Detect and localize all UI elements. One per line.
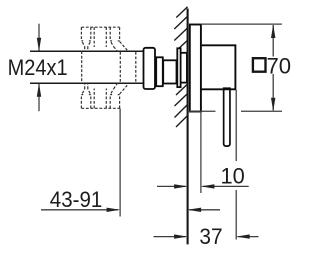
svg-text:43-91: 43-91 [50,187,103,212]
svg-text:70: 70 [267,53,292,78]
svg-text:M24x1: M24x1 [8,55,68,80]
svg-text:37: 37 [199,224,222,249]
svg-text:10: 10 [221,164,245,189]
